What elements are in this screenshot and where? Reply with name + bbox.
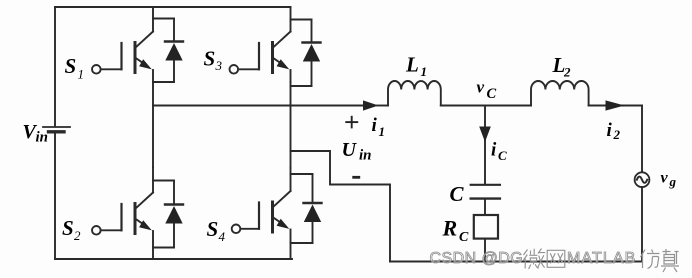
svg-text:1: 1 (379, 124, 386, 139)
diode D2 (antiparallel of S2) (153, 181, 183, 248)
wire right vertical lower (641, 187, 643, 261)
label minus (352, 176, 360, 179)
svg-text:1: 1 (421, 64, 428, 79)
wire left leg mid (S1 emitter to S2 collector) (152, 82, 154, 167)
wire L1 to L2 through node vC (441, 105, 531, 107)
wire RC to bottom (484, 239, 486, 262)
arrow i1 (363, 100, 379, 110)
svg-text:2: 2 (613, 127, 621, 142)
transistor S3 (IGBT) (230, 7, 291, 82)
battery Vin (43, 127, 70, 132)
diode D1 (antiparallel of S1) (153, 19, 183, 83)
wire L2 to right corner (589, 105, 642, 107)
wire right vertical upper (641, 106, 643, 173)
inductor L2 (531, 81, 589, 106)
svg-text:C: C (487, 86, 497, 102)
svg-text:U: U (342, 139, 358, 161)
watermark glyph wei (524, 249, 546, 270)
svg-text:4: 4 (219, 229, 226, 244)
watermark glyph wang (547, 250, 565, 267)
arrow iC (479, 127, 491, 143)
transistor S2 (IGBT) (92, 167, 153, 259)
wire left vertical to battery (54, 7, 56, 126)
node vC branch wire (484, 106, 486, 185)
svg-text:in: in (36, 130, 49, 146)
svg-text:CSDN @DG: CSDN @DG (430, 250, 524, 267)
wire bottom rail (55, 258, 292, 260)
watermark glyph zhen (661, 249, 679, 272)
svg-text:v: v (477, 78, 485, 97)
inductor L1 (388, 81, 441, 106)
wire arrow to L1 (377, 105, 388, 107)
svg-text:C: C (459, 230, 469, 245)
arrow i2 (606, 100, 625, 110)
svg-text:v: v (661, 170, 669, 187)
wire bottom right rail (390, 261, 642, 263)
label plus (345, 116, 358, 129)
svg-text:3: 3 (215, 58, 223, 73)
transistor S4 (IGBT) (232, 168, 291, 259)
diode D3 (antiparallel of S3) (291, 20, 321, 87)
svg-text:2: 2 (74, 228, 81, 243)
svg-text:L: L (405, 53, 419, 77)
wire right leg mid (S3 emitter to S4 collector) (290, 82, 292, 168)
source vg (AC) (635, 172, 650, 187)
wire bridge output plus to L1 (153, 105, 364, 107)
svg-text:2: 2 (563, 65, 571, 80)
svg-text:S: S (204, 47, 216, 71)
watermark glyph fang (641, 250, 660, 269)
svg-text:MATLAB: MATLAB (567, 250, 636, 267)
wire C to RC (484, 199, 486, 215)
svg-text:S: S (207, 217, 219, 241)
svg-text:S: S (65, 54, 77, 78)
svg-text:i: i (372, 115, 378, 136)
svg-text:C: C (498, 148, 507, 163)
svg-text:g: g (669, 174, 677, 189)
svg-text:in: in (359, 148, 372, 164)
wire battery to bottom rail (54, 134, 56, 260)
wire top rail (55, 6, 291, 8)
svg-text:1: 1 (78, 67, 85, 82)
svg-text:R: R (442, 216, 458, 241)
svg-text:i: i (491, 140, 497, 161)
svg-text:S: S (62, 216, 74, 240)
diode D4 (antiparallel of S4) (291, 174, 322, 243)
svg-text:C: C (450, 182, 465, 206)
capacitor C (471, 185, 500, 199)
transistor S1 (IGBT) (92, 7, 153, 82)
resistor RC (box) (474, 215, 498, 239)
wire bridge output minus (S3/S4 junction to bottom) (291, 151, 391, 262)
svg-text:i: i (607, 120, 613, 141)
